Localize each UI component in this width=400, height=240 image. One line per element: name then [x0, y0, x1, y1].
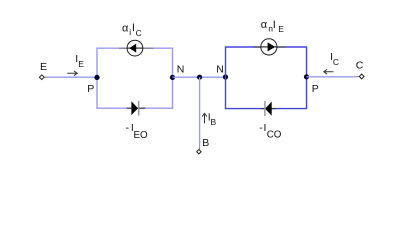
svg-text:I: I — [273, 19, 276, 31]
svg-text:i: i — [129, 27, 131, 37]
svg-text:B: B — [202, 137, 209, 149]
node B junction — [197, 75, 202, 80]
terminal C — [359, 74, 364, 79]
svg-text:-: - — [126, 122, 130, 134]
svg-text:EO: EO — [134, 130, 149, 141]
svg-text:E: E — [78, 59, 84, 69]
svg-text:C: C — [356, 60, 364, 72]
wire N to N (base link) — [173, 76, 226, 78]
diode D2 lead wires — [261, 108, 277, 110]
svg-text:α: α — [261, 19, 268, 31]
node P (left junction) — [94, 75, 99, 80]
current source U1 (alpha_i * IC) body — [127, 40, 143, 56]
svg-text:CO: CO — [267, 130, 282, 141]
svg-text:P: P — [312, 83, 319, 95]
arrow IC direction (left) — [324, 69, 334, 74]
svg-text:C: C — [333, 57, 339, 67]
svg-text:N: N — [216, 64, 224, 76]
current source U2 lead wires — [254, 46, 286, 48]
svg-text:P: P — [87, 83, 94, 95]
svg-text:N: N — [177, 64, 185, 76]
diode D2 (collector junction diode) — [265, 102, 272, 116]
svg-text:B: B — [211, 117, 217, 127]
svg-text:E: E — [40, 61, 47, 73]
diode D1 (emitter junction diode) — [131, 101, 138, 115]
current source U1 lead wires — [119, 47, 154, 49]
arrow IB direction (up) — [202, 113, 207, 123]
left loop wire (emitter diode branch rectangle) — [97, 48, 173, 108]
diode D1 lead wires — [127, 107, 146, 109]
svg-text:I: I — [132, 22, 135, 34]
terminal E — [39, 75, 44, 80]
wire base down to terminal B — [199, 77, 201, 145]
svg-text:C: C — [136, 28, 142, 38]
current source U2 (alpha_n * IE) body — [261, 39, 277, 55]
node P (right junction) — [304, 74, 309, 79]
wire node P to terminal C — [307, 76, 357, 78]
svg-text:E: E — [278, 24, 284, 34]
svg-text:α: α — [122, 22, 129, 34]
right loop wire (collector diode branch rectangle) — [226, 47, 307, 109]
terminal B — [197, 150, 201, 154]
node N (left) — [170, 75, 175, 80]
node N (right) — [223, 74, 228, 79]
arrow IE direction (right) — [67, 71, 77, 76]
wire E to node P — [44, 76, 46, 78]
